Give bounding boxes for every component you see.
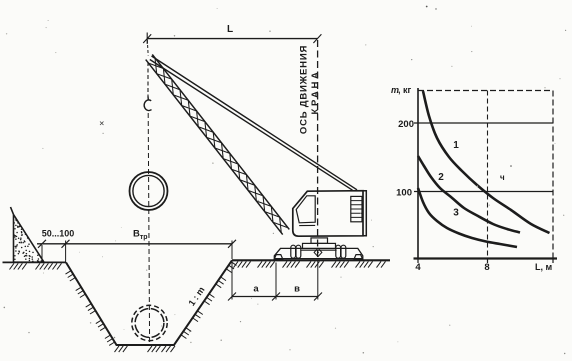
slash ticks a-в	[228, 293, 322, 301]
hanging pipe	[130, 172, 168, 210]
label 4	[415, 262, 421, 273]
ground hatching left	[10, 263, 62, 269]
boom suspension ropes	[150, 56, 357, 190]
ground line left	[3, 261, 67, 263]
svg-text:8: 8	[484, 262, 489, 273]
svg-text:100: 100	[396, 188, 412, 199]
curve 1	[423, 91, 550, 233]
gridline L=8 (dashed)	[487, 91, 489, 259]
svg-text:2: 2	[438, 172, 444, 183]
trench pipe	[132, 305, 167, 340]
ground hatching right	[234, 261, 386, 267]
left slope hatching	[66, 271, 115, 346]
dimension L right slash tick	[313, 34, 321, 43]
label a	[253, 284, 259, 295]
svg-text:, кг: , кг	[398, 85, 412, 95]
svg-text:ч: ч	[500, 173, 505, 182]
scan speck	[100, 6, 512, 182]
svg-text:L, м: L, м	[535, 262, 552, 272]
crane lattice boom	[146, 54, 290, 234]
label 200	[398, 119, 414, 130]
hook	[144, 97, 151, 111]
svg-text:в: в	[294, 284, 300, 295]
hoist cable (dashed)	[147, 62, 149, 97]
ground line right	[232, 259, 390, 261]
curve 2	[418, 156, 520, 233]
slope label 1:m	[186, 285, 206, 308]
dimension L left slash tick	[143, 33, 151, 45]
left track shoe	[274, 255, 283, 260]
trench bottom hatching	[115, 346, 176, 352]
crane housing	[293, 191, 363, 237]
cab sill line	[299, 224, 315, 226]
crawler frame	[274, 248, 363, 258]
extension lines Втр	[42, 241, 232, 263]
svg-text:50...100: 50...100	[42, 229, 75, 239]
label m,кг	[391, 85, 412, 95]
right track shoe	[354, 255, 363, 260]
dimension line L	[147, 38, 317, 40]
label 50...100	[42, 229, 75, 239]
crawler centre mark	[314, 248, 322, 256]
sling and pipe centreline (dashed)	[148, 113, 149, 345]
gridline 200	[418, 122, 553, 124]
svg-text:ОСЬ ДВИЖЕНИЯ: ОСЬ ДВИЖЕНИЯ	[299, 45, 310, 134]
right slope hatching	[181, 262, 237, 339]
svg-text:4: 4	[415, 262, 421, 273]
svg-text:200: 200	[398, 119, 414, 130]
label в	[294, 284, 300, 295]
axis ticks	[414, 123, 553, 263]
label 8	[484, 262, 489, 273]
graph y-axis	[417, 88, 419, 260]
track rollers	[291, 245, 346, 258]
svg-text:1: 1	[453, 140, 459, 151]
crane travel axis (dashed)	[317, 40, 319, 260]
gridline 100	[418, 191, 553, 193]
extension line to boom tip	[146, 40, 149, 56]
label 100	[396, 188, 412, 199]
crane housing right edge	[363, 191, 366, 236]
label L	[227, 24, 233, 35]
dimension line Втр	[37, 243, 232, 245]
svg-text:L: L	[227, 24, 233, 35]
turntable	[303, 243, 336, 248]
engine louvres	[351, 196, 362, 221]
spoil bank	[11, 207, 45, 262]
label КРАНА	[310, 70, 321, 115]
curve label 2	[438, 172, 444, 183]
curve 3	[418, 188, 517, 247]
cab window	[296, 196, 315, 223]
dimension line a-в	[232, 296, 318, 298]
svg-text:3: 3	[453, 208, 459, 219]
extension lines a-в	[232, 261, 318, 300]
svg-text:Втр: Втр	[133, 229, 148, 242]
svg-text:КРАНА: КРАНА	[310, 70, 321, 115]
curve label 3	[453, 208, 459, 219]
label ОСЬ ДВИЖЕНИЯ	[299, 45, 310, 134]
curve label 1	[453, 140, 459, 151]
graph x-axis	[414, 257, 558, 259]
graph top border (dashed)	[418, 90, 553, 92]
slash ticks Втр	[38, 240, 236, 248]
graph right border (dashed)	[552, 91, 554, 259]
label L,м	[535, 262, 552, 272]
pedestal	[311, 238, 328, 244]
svg-text:а: а	[253, 284, 259, 295]
trench outline	[66, 260, 232, 345]
svg-text:1 : m: 1 : m	[186, 285, 206, 308]
label Втр	[133, 229, 148, 242]
